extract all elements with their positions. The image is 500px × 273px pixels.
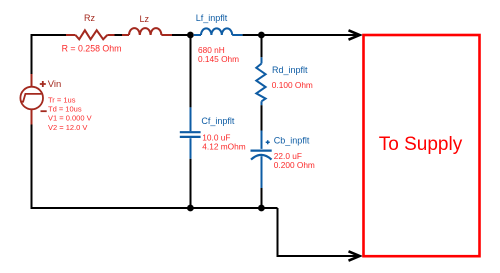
source V1 circle <box>20 87 43 110</box>
inductor Lz humps <box>129 28 161 35</box>
capacitor Cb curved plate <box>251 155 272 160</box>
capacitor Cf bottom plate <box>180 136 201 138</box>
wire left vertical lower <box>31 125 33 210</box>
To Supply box <box>364 35 480 256</box>
svg-text:R = 0.258 Ohm: R = 0.258 Ohm <box>62 44 122 54</box>
svg-text:Lf_inpflt: Lf_inpflt <box>196 13 228 23</box>
wire lead above Vin <box>31 74 33 87</box>
inductor Lf_inpflt humps <box>201 28 232 35</box>
svg-text:Cb_inpflt: Cb_inpflt <box>274 136 310 146</box>
resistor Rz lead right <box>107 34 114 36</box>
minus sign Vin <box>41 110 47 112</box>
arrow head top <box>349 30 360 39</box>
wire bottom arrow shaft <box>277 255 357 257</box>
capacitor Cb lead bottom <box>261 156 263 188</box>
svg-text:V2 = 12.0 V: V2 = 12.0 V <box>48 123 87 132</box>
resistor Rd_inpflt lead bottom <box>261 101 263 105</box>
wire node1 vertical lower <box>190 159 192 208</box>
wire Lz to node1 <box>172 34 190 36</box>
svg-text:Td = 10us: Td = 10us <box>48 105 82 114</box>
capacitor Cf lead bottom <box>190 138 192 159</box>
wire top arrow shaft <box>264 34 356 36</box>
svg-text:Tr = 1us: Tr = 1us <box>48 96 76 105</box>
wire Lf to node2 <box>243 34 262 36</box>
svg-text:To Supply: To Supply <box>379 134 463 155</box>
svg-text:Rz: Rz <box>84 13 95 23</box>
svg-text:Vin: Vin <box>48 79 62 90</box>
node junction 1 <box>187 32 194 39</box>
svg-text:0.100 Ohm: 0.100 Ohm <box>272 80 313 90</box>
wire Rd to Cb <box>261 105 263 130</box>
wire between Rz and Lz <box>115 34 123 36</box>
svg-text:4.12 mOhm: 4.12 mOhm <box>202 142 245 152</box>
capacitor Cf top plate <box>180 131 201 133</box>
resistor Rd_inpflt zigzag <box>256 64 265 102</box>
capacitor Cf lead top <box>190 107 192 131</box>
inductor Lz lead right <box>161 34 172 36</box>
plus sign Vin <box>40 81 46 87</box>
wire node1 vertical upper <box>190 35 192 107</box>
svg-text:Rd_inpflt: Rd_inpflt <box>272 65 308 75</box>
svg-text:Cf_inpflt: Cf_inpflt <box>201 116 235 126</box>
wire lead below Vin <box>31 109 33 124</box>
wire bottom jog down <box>277 208 279 256</box>
svg-text:Lz: Lz <box>140 14 150 24</box>
source pulse waveform <box>21 94 42 102</box>
svg-text:0.200 Ohm: 0.200 Ohm <box>274 160 315 170</box>
wire bottom rail <box>31 207 278 209</box>
inductor Lz lead left <box>122 34 129 36</box>
wire node2 vertical lower <box>261 188 263 208</box>
node junction 2 <box>258 32 265 39</box>
capacitor Cb top plate <box>251 150 272 152</box>
wire top-left horizontal <box>31 34 67 36</box>
svg-text:V1 = 0.000 V: V1 = 0.000 V <box>48 114 92 123</box>
resistor Rz lead left <box>66 34 75 36</box>
resistor Rz zigzag <box>75 30 107 39</box>
plus sign Cb <box>266 140 270 144</box>
node junction bottom 2 <box>258 205 265 212</box>
wire left vertical upper <box>31 34 33 74</box>
svg-text:0.145 Ohm: 0.145 Ohm <box>198 54 239 64</box>
arrow head bottom <box>349 251 360 260</box>
resistor Rd_inpflt lead top <box>261 57 263 63</box>
inductor Lf_inpflt lead left <box>194 34 201 36</box>
capacitor Cb lead top <box>261 131 263 149</box>
node junction bottom 1 <box>187 205 194 212</box>
wire node2 vertical upper <box>261 35 263 57</box>
inductor Lf_inpflt lead right <box>232 34 242 36</box>
